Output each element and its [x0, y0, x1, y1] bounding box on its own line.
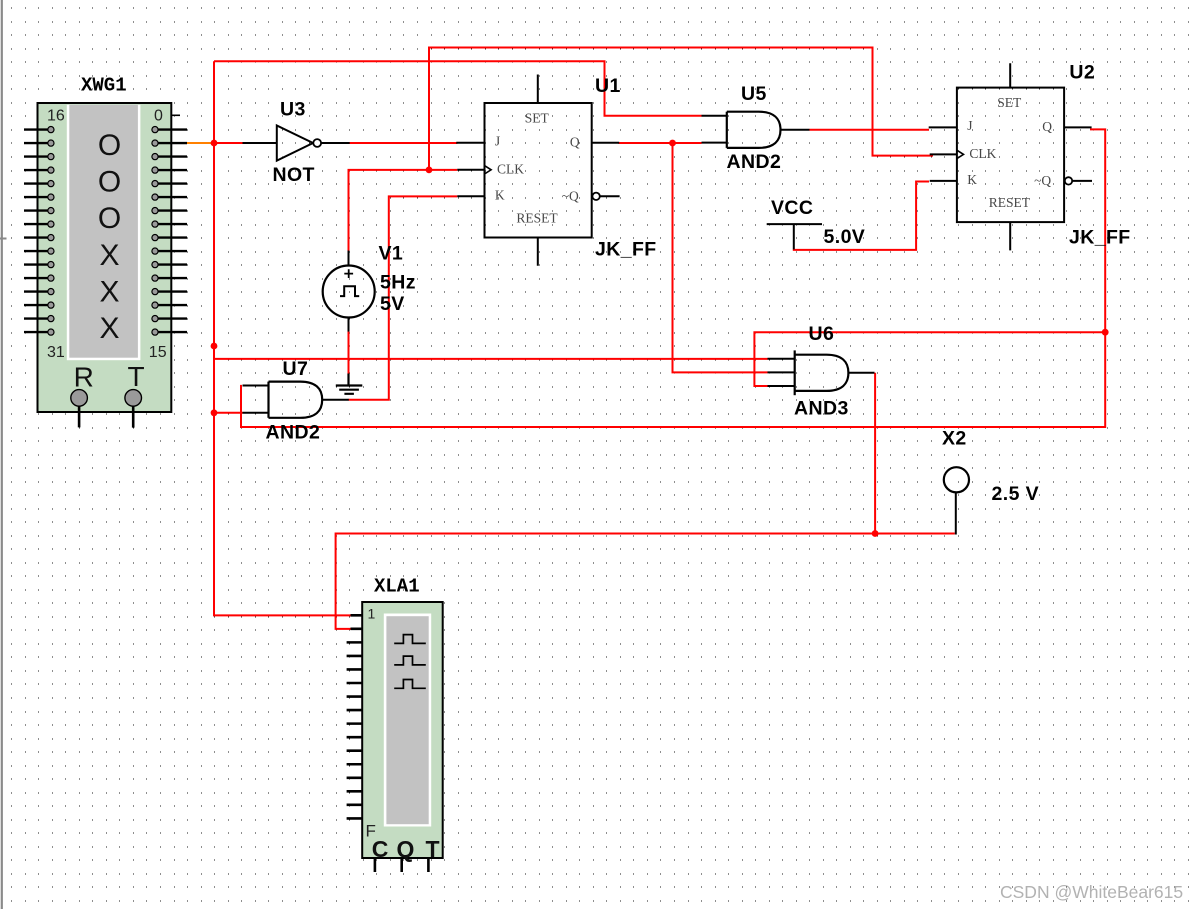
svg-text:31: 31	[47, 344, 65, 361]
svg-text:R: R	[74, 362, 94, 393]
svg-text:SET: SET	[525, 110, 550, 125]
svg-text:15: 15	[149, 344, 167, 361]
svg-text:RESET: RESET	[516, 211, 558, 226]
svg-text:U5: U5	[741, 83, 767, 105]
svg-text:5.0V: 5.0V	[824, 226, 866, 248]
svg-text:5Hz: 5Hz	[380, 272, 416, 294]
svg-text:U3: U3	[280, 98, 306, 120]
svg-text:~Q: ~Q	[1034, 173, 1051, 188]
svg-text:U1: U1	[595, 75, 621, 97]
svg-text:AND3: AND3	[794, 398, 849, 420]
svg-text:2.5 V: 2.5 V	[992, 483, 1040, 505]
svg-text:16: 16	[47, 108, 65, 125]
svg-text:T: T	[425, 836, 439, 862]
svg-text:AND2: AND2	[727, 151, 782, 173]
svg-text:X2: X2	[942, 427, 967, 449]
svg-text:X: X	[99, 275, 119, 308]
svg-text:T: T	[127, 361, 144, 392]
svg-text:XLA1: XLA1	[374, 576, 420, 598]
svg-text:O: O	[98, 166, 121, 199]
svg-text:AND2: AND2	[266, 422, 321, 444]
svg-text:1: 1	[368, 606, 376, 622]
svg-text:U6: U6	[809, 323, 835, 345]
svg-text:Q: Q	[397, 836, 415, 862]
svg-text:~Q: ~Q	[562, 188, 579, 203]
svg-text:Q: Q	[1042, 119, 1052, 134]
svg-text:C: C	[372, 836, 389, 862]
svg-text:U7: U7	[283, 358, 309, 380]
svg-text:J: J	[967, 118, 972, 133]
svg-text:K: K	[495, 188, 505, 203]
svg-text:CSDN @WhiteBear615: CSDN @WhiteBear615	[1000, 882, 1183, 902]
svg-text:SET: SET	[997, 95, 1022, 110]
svg-text:Q: Q	[570, 134, 580, 149]
svg-text:NOT: NOT	[273, 164, 315, 186]
svg-text:VCC: VCC	[771, 197, 813, 219]
svg-text:J: J	[495, 134, 500, 149]
svg-text:XWG1: XWG1	[81, 75, 127, 97]
svg-text:K: K	[967, 172, 977, 187]
svg-text:JK_FF: JK_FF	[1069, 227, 1131, 249]
svg-text:CLK: CLK	[497, 161, 524, 176]
svg-text:X: X	[99, 239, 119, 272]
svg-text:0: 0	[154, 108, 163, 125]
svg-text:JK_FF: JK_FF	[595, 239, 657, 261]
svg-text:O: O	[98, 202, 121, 235]
svg-text:O: O	[98, 129, 121, 162]
svg-text:U2: U2	[1069, 61, 1095, 83]
svg-text:5V: 5V	[380, 293, 405, 315]
svg-text:RESET: RESET	[989, 195, 1031, 210]
svg-text:V1: V1	[379, 243, 404, 265]
svg-text:X: X	[99, 312, 119, 345]
svg-text:CLK: CLK	[969, 146, 996, 161]
